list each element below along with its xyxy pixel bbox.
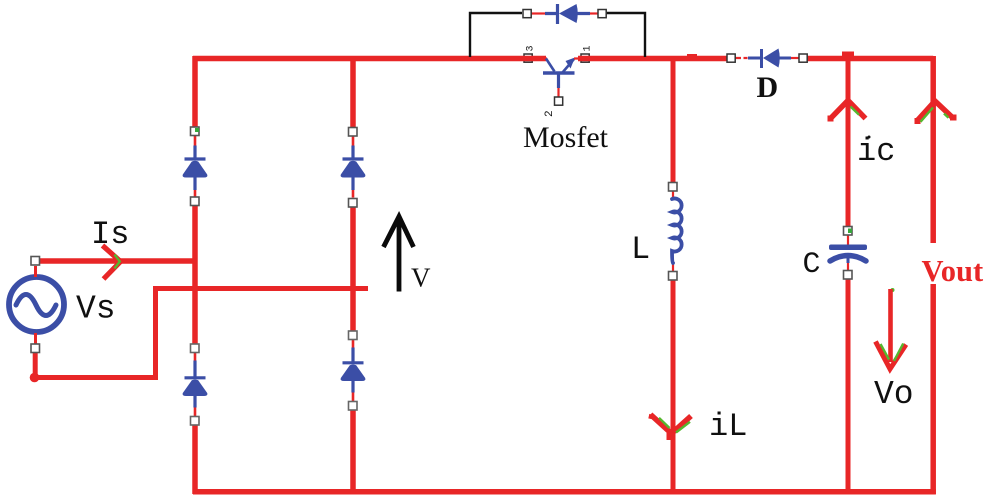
arrow Vo output voltage [876, 288, 907, 369]
wire bottom bus [193, 489, 936, 495]
capacitor C bottom terminal [844, 271, 853, 280]
arrow V rectified voltage [384, 217, 414, 292]
ac source Vs [9, 266, 64, 344]
label Mosfet [523, 121, 609, 154]
diode D4 cathode terminal [349, 402, 358, 411]
wire Is from source to bridge [37, 258, 197, 264]
diode D right terminal [799, 54, 807, 62]
inductor L top terminal [669, 183, 678, 192]
mosfet U1 [543, 58, 579, 98]
label ic [857, 133, 895, 170]
arrow iL current [651, 415, 692, 441]
arrow ic current [828, 101, 866, 122]
wire left bridge leg bottom [192, 425, 198, 495]
svg-text:D: D [757, 71, 779, 104]
ac source top terminal [31, 257, 40, 266]
label Vo [874, 376, 914, 413]
wire right leg lower [930, 284, 936, 494]
wire top bus right segment and right leg upper [805, 56, 933, 243]
wire capacitor leg bottom [846, 276, 851, 494]
label Vs [76, 291, 116, 328]
svg-text:Vs: Vs [76, 291, 116, 328]
label D [757, 71, 779, 104]
wire second bridge leg bottom [350, 410, 356, 495]
diode D [735, 49, 799, 69]
diode D4 lower right bridge [341, 340, 366, 402]
svg-text:Vout: Vout [922, 254, 984, 288]
inductor L [672, 192, 682, 273]
diode D1 upper left bridge [183, 136, 208, 198]
capacitor C top terminal [844, 227, 853, 236]
svg-text:Is: Is [91, 216, 129, 253]
arrow Vout top chevron [915, 101, 957, 124]
label C [803, 248, 821, 282]
svg-text:ic: ic [857, 133, 895, 170]
svg-text:V: V [411, 263, 431, 293]
junction nub above top bus at capacitor leg [687, 52, 854, 58]
mosfet pin number 3 [526, 45, 537, 51]
diode D4 anode terminal [349, 331, 358, 340]
diode D2 cathode terminal [349, 199, 358, 208]
label Is [91, 216, 129, 253]
wire top bus middle segment [578, 56, 728, 62]
diode D3 anode terminal [191, 344, 200, 353]
diode D3 cathode terminal [191, 417, 200, 426]
wire inductor leg top [671, 58, 676, 184]
wire inductor leg bottom [671, 279, 676, 494]
inductor L bottom terminal [669, 272, 678, 281]
ac source bottom terminal [31, 344, 40, 353]
diode D1 anode terminal [191, 127, 200, 136]
svg-text:Mosfet: Mosfet [523, 121, 609, 154]
antiparallel diode right terminal [598, 10, 606, 18]
label Vout [922, 254, 984, 288]
diode D1 cathode terminal [191, 197, 200, 206]
diode D2 upper right bridge [341, 136, 366, 198]
svg-text:3: 3 [526, 45, 537, 51]
green mark on diode D1 terminal [195, 128, 199, 132]
wire left bridge leg top [192, 56, 198, 127]
mosfet pin number 1 [583, 45, 594, 51]
stray dot artifact [868, 136, 871, 139]
antiparallel diode left terminal [523, 10, 531, 18]
antiparallel diode across mosfet [532, 4, 599, 24]
wire left bridge leg middle [192, 205, 198, 345]
svg-text:C: C [803, 248, 821, 282]
mosfet pin 2 terminal [555, 97, 563, 105]
label V [411, 263, 431, 293]
svg-text:iL: iL [709, 408, 747, 445]
svg-text:1: 1 [583, 45, 594, 51]
wire second bridge leg top [350, 56, 356, 127]
svg-text:Vo: Vo [874, 376, 914, 413]
wire capacitor leg top [846, 58, 851, 229]
capacitor C [829, 235, 867, 271]
diode D3 lower left bridge [183, 353, 208, 417]
diode D left terminal [727, 54, 735, 62]
wire second bridge leg middle [350, 207, 356, 332]
arrow Is current direction [103, 246, 121, 280]
mosfet pin number 2 [544, 110, 556, 117]
mosfet pin 3 terminal [524, 54, 532, 62]
label L [631, 231, 650, 268]
svg-text:L: L [631, 231, 650, 268]
wire black loop around mosfet [470, 13, 645, 57]
svg-text:2: 2 [544, 110, 556, 117]
mosfet pin 1 terminal [581, 54, 589, 62]
diode D2 anode terminal [349, 128, 358, 137]
wire top bus left segment [193, 56, 546, 62]
junction dot at source return corner [30, 373, 40, 383]
wire source return path [31, 289, 368, 381]
label iL [709, 408, 747, 445]
